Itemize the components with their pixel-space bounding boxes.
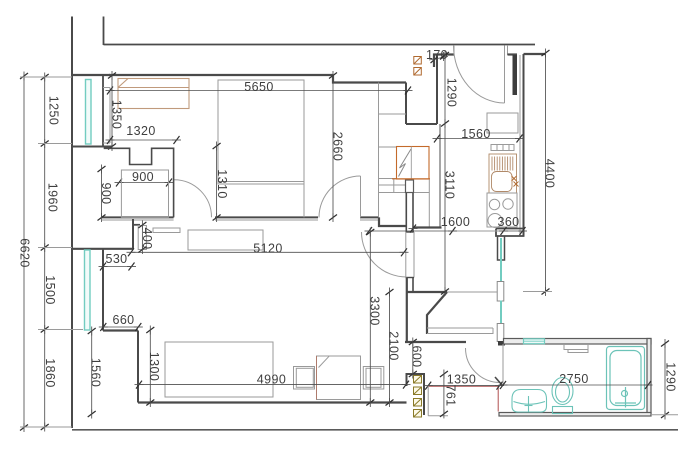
bed living — [165, 342, 273, 397]
dimension extension lines left — [20, 77, 83, 427]
chair 2 living — [363, 367, 384, 390]
door living arc — [362, 232, 407, 277]
svg-text:4400: 4400 — [543, 159, 557, 188]
dimension 660 — [99, 313, 143, 331]
wall hall mid — [407, 291, 448, 293]
wall room1 window bay inner — [109, 88, 111, 144]
door entry leaf — [504, 46, 506, 104]
svg-text:2750: 2750 — [559, 372, 588, 386]
wall hall left lower face2 — [412, 278, 414, 293]
wall black bar right of entry — [513, 55, 518, 95]
svg-text:1560: 1560 — [461, 127, 490, 141]
svg-text:1320: 1320 — [126, 124, 155, 138]
svg-text:900: 900 — [99, 182, 113, 204]
wall step to hall — [379, 217, 407, 226]
svg-text:600: 600 — [410, 345, 424, 367]
wall kitchen right outer — [523, 54, 525, 237]
door bathroom arc — [466, 348, 501, 383]
hatch square top 1 — [414, 57, 422, 65]
wall entry right — [508, 53, 518, 55]
dimension 761 — [440, 370, 458, 419]
dimension 4990 — [135, 373, 411, 389]
closet shelf line 3 room1 — [379, 178, 397, 180]
wall below kitchen left — [498, 236, 505, 260]
kitchen sink faucet marks — [512, 176, 519, 187]
dimension 900 vertical — [98, 165, 114, 223]
shelf line 2 above bathroom door — [427, 328, 493, 334]
wall kitchen left upper — [436, 55, 438, 124]
door frame entry right — [507, 45, 509, 55]
wall living top segment a — [102, 216, 174, 218]
svg-text:900: 900 — [132, 170, 154, 184]
svg-text:360: 360 — [497, 215, 519, 229]
dimension 5650 — [106, 80, 413, 95]
desk living — [317, 356, 361, 400]
red line bathroom 2 — [497, 386, 499, 411]
svg-text:5650: 5650 — [244, 80, 273, 94]
wire top-left vertical wall — [103, 17, 105, 46]
wire room1 top-left wall stub — [71, 74, 110, 76]
shelf lines above bathroom door — [427, 327, 493, 329]
door entry arc — [454, 46, 505, 104]
pipe fitting 2 — [497, 324, 504, 342]
wall living top a lower face — [102, 219, 174, 221]
dimension chain left inner — [41, 73, 61, 432]
wall living left — [102, 249, 104, 331]
closet shelf line 4 room1 — [379, 184, 406, 186]
wall living notch top stub — [133, 224, 140, 226]
shaft edge line below boiler — [428, 179, 430, 227]
dimension 360 — [497, 215, 527, 235]
bathroom shelf 2 — [568, 350, 588, 353]
wall bathroom right band — [647, 339, 651, 415]
wall kitchen left lower — [439, 124, 441, 228]
wall living top segment b — [215, 216, 318, 218]
svg-text:5120: 5120 — [253, 242, 282, 256]
dimension 170 — [426, 48, 448, 65]
svg-text:1560: 1560 — [89, 358, 103, 387]
dimension 1560 living — [88, 327, 103, 419]
chair 1 living — [294, 367, 315, 390]
svg-text:1300: 1300 — [147, 352, 161, 381]
door bathroom leaf — [495, 377, 502, 385]
svg-text:3110: 3110 — [443, 171, 457, 199]
bed room1 double gray — [218, 80, 304, 184]
hatch squares column bathroom — [414, 376, 422, 418]
dimension 900 horizontal — [115, 170, 174, 187]
dimension 530 — [99, 252, 137, 271]
window bathroom teal — [524, 339, 545, 344]
pipe fitting 1 — [497, 282, 504, 302]
bed room1 brown — [118, 79, 189, 109]
svg-text:4990: 4990 — [257, 373, 286, 387]
dimension 1350 bathroom — [424, 373, 504, 416]
door room2 leaf — [360, 176, 362, 218]
wall entry left stub — [434, 55, 454, 68]
dimension 1560 kitchen — [433, 127, 525, 143]
bathroom sink — [512, 390, 547, 413]
dimension 2100 — [386, 288, 401, 408]
window room1 teal — [86, 80, 92, 145]
dimension 5120 — [127, 242, 409, 257]
wall top right segment — [524, 53, 547, 55]
kitchen stove — [487, 193, 517, 228]
wall bathroom bottom band — [499, 413, 651, 417]
wall living bottom — [138, 401, 407, 403]
desk red left edge — [316, 356, 318, 400]
svg-text:3300: 3300 — [368, 296, 382, 325]
wall hall left upper face2 — [412, 180, 414, 233]
svg-text:1290: 1290 — [664, 362, 678, 391]
wall bathroom top band — [504, 339, 652, 345]
wall kitchen right inner — [519, 55, 521, 236]
boiler — [392, 147, 430, 180]
svg-text:6620: 6620 — [18, 238, 32, 267]
dimension 1290 kitchen — [441, 51, 459, 129]
hatch square top 2 — [414, 68, 422, 76]
wall shaft bottom — [406, 123, 437, 125]
svg-text:660: 660 — [112, 313, 134, 327]
bed room1 double inner line — [218, 181, 304, 183]
wall bathroom top-left corner piece — [498, 341, 505, 346]
wire top boundary line — [104, 44, 536, 46]
wall living notch vertical — [132, 219, 134, 249]
wall hall door opening jamb lines — [405, 232, 407, 278]
svg-text:400: 400 — [140, 227, 154, 249]
wall kitchen bottom — [496, 229, 524, 237]
dimension 1300 — [146, 326, 161, 408]
dimension 1310 — [213, 142, 229, 223]
svg-text:2660: 2660 — [331, 132, 345, 161]
dimension 3300 — [366, 228, 381, 408]
wall living top segment c — [360, 216, 379, 218]
wall living bay left — [137, 331, 139, 403]
wall hall door jamb top — [406, 231, 415, 233]
wire left exterior wall — [71, 17, 73, 429]
wall hall bottom left — [405, 341, 466, 343]
dimension 3110 — [441, 124, 457, 297]
closet partition room1 — [378, 83, 380, 218]
window living teal — [85, 250, 91, 330]
closet crenellated wall room1 — [105, 147, 174, 218]
bathroom shelf — [564, 345, 588, 350]
svg-text:761: 761 — [444, 384, 458, 406]
cabinet living top — [188, 230, 263, 250]
wall hall left upper face — [405, 180, 407, 233]
meter box below shaft — [406, 180, 414, 193]
wall hall chamfer — [427, 292, 447, 334]
wall bathroom left corner — [407, 374, 425, 415]
door room2 arc — [319, 176, 361, 218]
svg-text:1600: 1600 — [441, 215, 470, 229]
wall bay niche top — [103, 87, 110, 89]
svg-text:2100: 2100 — [387, 331, 401, 360]
svg-text:1290: 1290 — [445, 78, 459, 107]
wall hall top — [413, 226, 442, 228]
dimension 400 — [138, 221, 154, 255]
wall living bay bottom — [103, 329, 138, 331]
bathtub — [607, 347, 645, 410]
dimension 1320 — [106, 124, 182, 144]
duct box right of notch — [138, 226, 146, 250]
wall living top c lower face — [360, 219, 379, 221]
dimension 2750 — [499, 344, 653, 389]
wire bottom exterior line — [72, 429, 678, 431]
closet shelf line 2 room1 — [379, 146, 397, 148]
wall bay bottom — [72, 146, 112, 148]
wall living notch horizontal — [72, 248, 133, 250]
kitchen cabinet — [487, 113, 518, 133]
pipe riser teal upper — [500, 238, 502, 283]
dimension 1350 window — [108, 71, 124, 151]
dimension 1600 — [365, 215, 504, 235]
kitchen sink unit — [489, 154, 517, 193]
wall bay niche bottom — [103, 142, 110, 144]
svg-text:1310: 1310 — [215, 169, 229, 198]
door room1 arc — [174, 180, 212, 218]
svg-text:530: 530 — [105, 252, 127, 266]
wall shaft left — [405, 83, 407, 125]
dimension 2660 — [329, 71, 345, 222]
wall room1 top — [109, 74, 333, 76]
bed room1 side line to wall — [303, 184, 305, 217]
wall hall mid thin continuation — [447, 291, 497, 293]
closet shelf line room1 — [379, 113, 407, 115]
svg-text:1500: 1500 — [43, 275, 57, 304]
closet bottom line room1 — [379, 192, 430, 194]
cabinet 900 square room1 — [121, 170, 168, 217]
dimension 4400 — [523, 49, 557, 297]
dimension 1290 bathroom — [651, 339, 678, 420]
pipe riser teal middle — [500, 301, 502, 325]
dimension chain left outer 6620 — [18, 72, 32, 433]
wall hall door jamb bottom — [406, 277, 415, 279]
wall hall left lower face — [406, 278, 408, 343]
red line bathroom 1 — [427, 385, 499, 387]
wall room1 top step — [333, 75, 406, 83]
wall room1 window bay outer — [102, 75, 104, 147]
bathroom toilet — [552, 378, 573, 414]
svg-text:1350: 1350 — [110, 100, 124, 129]
kitchen cabinet hatch — [491, 145, 514, 151]
svg-text:1860: 1860 — [43, 358, 57, 387]
dimension 600 — [409, 338, 424, 379]
svg-text:1250: 1250 — [47, 96, 61, 125]
wall living top b lower face — [215, 219, 318, 221]
door frame entry left — [453, 45, 455, 55]
svg-text:1960: 1960 — [46, 183, 60, 212]
shelf living top — [153, 228, 180, 233]
closet cell divider room1 — [393, 179, 395, 193]
